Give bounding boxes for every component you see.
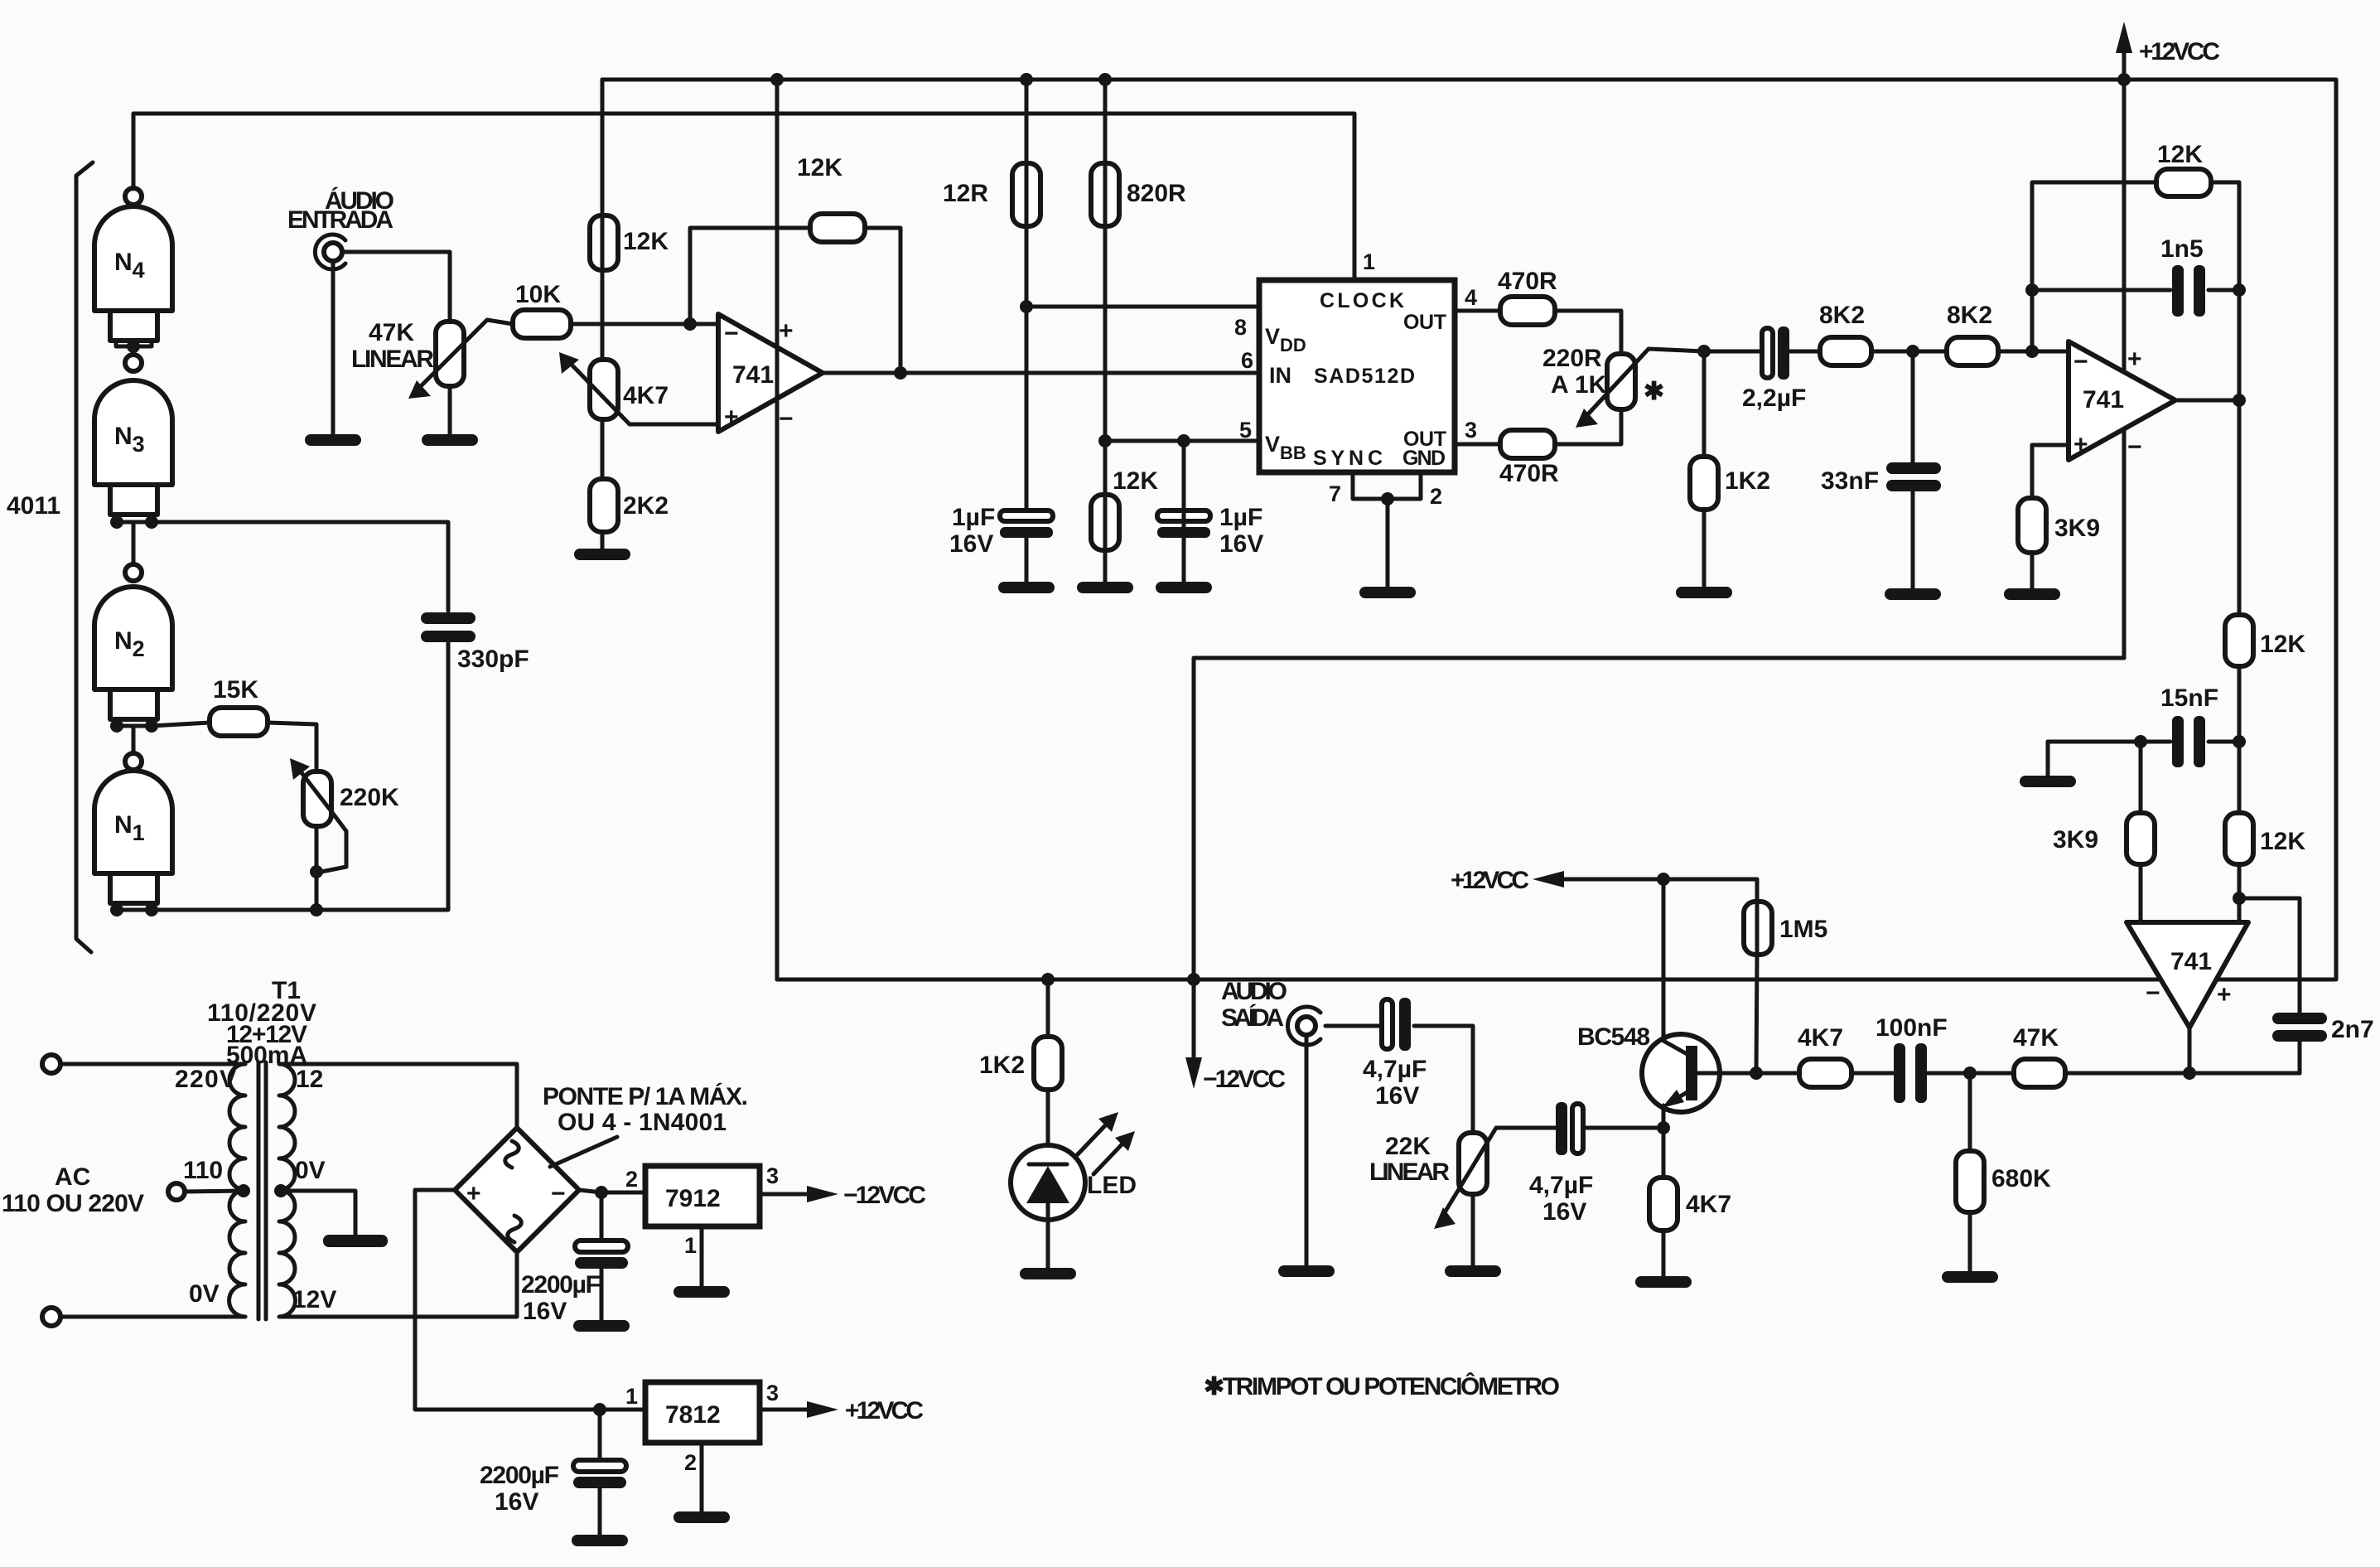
- resistor 2K2: [590, 479, 669, 532]
- potentiometer 22K LINEAR: [1369, 1128, 1496, 1229]
- svg-text:3: 3: [766, 1381, 779, 1405]
- wire node to 2.2uF: [1704, 350, 1760, 354]
- wire 12R chain from rail to 1uF: [1025, 80, 1029, 512]
- svg-text:470R: 470R: [1499, 460, 1559, 487]
- wire -12V horizontal rail y1182: [777, 978, 2334, 982]
- svg-text:12R: 12R: [943, 180, 988, 207]
- connector audio output jack: [1287, 1007, 1320, 1045]
- ground under 2200uF no2: [572, 1535, 628, 1546]
- svg-text:4,7µF: 4,7µF: [1363, 1056, 1427, 1083]
- svg-text:8K2: 8K2: [1819, 302, 1865, 329]
- svg-text:2n7: 2n7: [2331, 1016, 2374, 1043]
- svg-text:3: 3: [766, 1163, 779, 1188]
- terminal 110 tap: [168, 1183, 185, 1200]
- wire 470R top to pot top: [1555, 311, 1621, 354]
- ground under 47K: [422, 434, 478, 446]
- svg-text:7: 7: [1329, 481, 1341, 506]
- svg-text:2200µF: 2200µF: [480, 1462, 559, 1489]
- svg-text:4K7: 4K7: [623, 382, 669, 409]
- regulator 7812: [625, 1381, 779, 1475]
- wire 1uF no2 from VBB to ground: [1182, 441, 1186, 582]
- svg-text:2: 2: [625, 1167, 638, 1192]
- resistor 8K2 no2: [1947, 302, 1998, 365]
- wire bridge pointer: [550, 1137, 617, 1167]
- ground secondary 0V: [323, 1235, 388, 1247]
- junction 220K bottom: [310, 865, 323, 878]
- wire 8K2 no1 to 33nF node: [1871, 350, 1947, 354]
- junction 7912 input: [595, 1186, 608, 1199]
- wire 12K VBB to ground: [1103, 441, 1108, 582]
- resistor 680K: [1956, 1151, 2051, 1212]
- wire 15nF row to ground stub: [2048, 740, 2170, 744]
- svg-text:✱TRIMPOT OU POTENCIÔMETRO: ✱TRIMPOT OU POTENCIÔMETRO: [1204, 1372, 1560, 1400]
- wire feedback loop 741 no1: [690, 228, 810, 324]
- svg-text:A 1K: A 1K: [1551, 371, 1607, 399]
- resistor 10K: [513, 281, 571, 338]
- wire 7812 output arrow: [760, 1397, 924, 1424]
- wire 4.7uF no2 to emitter: [1583, 1126, 1663, 1130]
- wire collector vertical: [1662, 879, 1666, 1041]
- wire emitter vertical: [1662, 1105, 1666, 1178]
- gate N2: [94, 564, 172, 719]
- junction 1n5 left: [2025, 283, 2039, 297]
- svg-text:16V: 16V: [523, 1298, 567, 1325]
- wire VBB line pin5: [1105, 439, 1259, 443]
- svg-text:10K: 10K: [515, 281, 561, 308]
- svg-text:16V: 16V: [1375, 1082, 1419, 1110]
- wire jack to 47K pot top: [342, 252, 450, 322]
- resistor 12R: [943, 163, 1040, 226]
- wire 741 no1 output to SAD512D IN: [823, 371, 1259, 375]
- wire N2 output link to 15K and N1: [116, 719, 152, 726]
- wire pin4 to 470R top: [1455, 309, 1500, 313]
- wire LED chain: [1046, 979, 1050, 1037]
- svg-text:LED: LED: [1087, 1172, 1137, 1199]
- regulator 7912: [625, 1163, 779, 1258]
- svg-text:1K2: 1K2: [1725, 467, 1770, 495]
- svg-text:330pF: 330pF: [457, 646, 529, 673]
- wire 33nF to ground: [1911, 491, 1915, 588]
- svg-text:220V: 220V: [175, 1066, 236, 1093]
- op-amp 741 no3: [2127, 922, 2248, 1028]
- svg-text:8K2: 8K2: [1947, 302, 1992, 329]
- wire 7912 output arrow: [760, 1182, 926, 1209]
- ground under 1uF no2: [1156, 582, 1212, 593]
- svg-text:SAD512D: SAD512D: [1314, 365, 1415, 388]
- ground 15nF stub: [2020, 776, 2076, 787]
- wire N3 output link and feed to 330pF: [116, 515, 152, 522]
- svg-text:15K: 15K: [213, 676, 258, 704]
- resistor 12K feedback no1: [797, 154, 865, 242]
- wire N4 output links: [116, 341, 152, 346]
- ground under 2K2: [574, 549, 630, 560]
- wire 47K to output node: [2065, 1071, 2189, 1076]
- wire feedback right vertical: [2211, 182, 2239, 400]
- op-amp 741 no2: [2069, 341, 2175, 461]
- junction N2 link right: [145, 719, 158, 733]
- junction N3 link right: [145, 515, 158, 529]
- resistor 1K2 LED: [979, 1037, 1062, 1090]
- wire 22K bottom to ground: [1471, 1194, 1475, 1265]
- wire 1n5 row: [2032, 288, 2170, 293]
- junction N4-N3 link: [127, 340, 140, 353]
- wire 741 no2 supply vertical x2564: [2122, 80, 2127, 658]
- gate N4: [94, 188, 172, 341]
- wire bridge minus to 7912 input: [579, 1190, 645, 1192]
- ground under 22K: [1445, 1265, 1501, 1277]
- junction 33nF node: [1906, 345, 1919, 358]
- junction 0V tap: [274, 1184, 287, 1197]
- svg-text:4: 4: [1465, 285, 1477, 310]
- resistor 4K7 emitter: [1649, 1178, 1731, 1231]
- svg-text:−: −: [724, 320, 739, 347]
- svg-text:OU 4 - 1N4001: OU 4 - 1N4001: [558, 1109, 727, 1136]
- junction VBB 820R-12K: [1098, 434, 1112, 447]
- wire non-inverting input to 3K9: [2032, 445, 2069, 498]
- junction 12R to VDD: [1020, 300, 1033, 313]
- svg-text:LINEAR: LINEAR: [1369, 1158, 1450, 1186]
- resistor 3K9 no1: [2018, 498, 2100, 553]
- ground under 33nF: [1885, 588, 1941, 600]
- potentiometer 47K LINEAR: [351, 319, 513, 399]
- ground under 1uF no1: [998, 582, 1055, 593]
- svg-text:1µF: 1µF: [952, 504, 995, 531]
- wire 741 no2 output: [2175, 399, 2239, 403]
- junction 15nF left: [2134, 735, 2147, 748]
- junction 7812 input: [593, 1403, 606, 1416]
- svg-text:+: +: [2127, 346, 2142, 373]
- IC bracket 4011: [76, 162, 93, 952]
- ground under 7812: [673, 1511, 730, 1523]
- svg-text:1n5: 1n5: [2160, 235, 2204, 263]
- wire secondary 0V tap to ground: [281, 1191, 355, 1235]
- svg-text:IN: IN: [1269, 363, 1291, 388]
- wire 741 no3 output stub: [2188, 1028, 2192, 1073]
- junction rail x938: [770, 73, 784, 86]
- resistor 12K bias upper: [590, 215, 669, 270]
- wire 33nF node down: [1911, 351, 1915, 462]
- wire 110 tap: [185, 1191, 244, 1192]
- wire 10K to inverting input of 741 no1: [571, 322, 718, 326]
- svg-text:1: 1: [1363, 249, 1375, 274]
- wire 1M5 from +12 line to base node: [1756, 879, 1757, 1073]
- svg-text:BC548: BC548: [1577, 1023, 1650, 1051]
- junction 15nF right: [2233, 735, 2246, 748]
- gate N1: [94, 753, 172, 903]
- wire 820R chain from rail to VBB: [1103, 80, 1108, 441]
- junction rail x2564: [2117, 73, 2131, 86]
- wire AC top to primary: [60, 1062, 245, 1066]
- ground under 4K7 emitter: [1635, 1276, 1692, 1288]
- svg-text:741: 741: [732, 361, 774, 389]
- capacitor 33nF: [1821, 462, 1941, 495]
- junction emitter node: [1657, 1121, 1670, 1134]
- junction 741 no2 output: [2233, 394, 2246, 407]
- svg-text:1M5: 1M5: [1779, 916, 1827, 943]
- wire bias chain 12K to 4K7: [601, 80, 605, 360]
- junction N2 link left: [110, 719, 123, 733]
- wire jack ground lead: [331, 261, 336, 434]
- resistor 820R: [1091, 163, 1186, 226]
- junction -12V rail LED tap: [1041, 973, 1055, 986]
- svg-text:3K9: 3K9: [2053, 826, 2098, 854]
- svg-text:2,2µF: 2,2µF: [1742, 384, 1806, 412]
- svg-text:−: −: [2127, 433, 2142, 461]
- svg-text:+12VCC: +12VCC: [845, 1397, 924, 1424]
- svg-text:16V: 16V: [949, 530, 993, 558]
- svg-text:PONTE P/ 1A MÁX.: PONTE P/ 1A MÁX.: [543, 1082, 748, 1110]
- wire 12K divider chain: [2238, 400, 2242, 922]
- trimpot 220R A 1K: [1542, 345, 1704, 428]
- wire output row right segment: [2189, 1071, 2300, 1076]
- ground under SAD512D: [1359, 587, 1416, 598]
- svg-text:AC: AC: [55, 1163, 90, 1191]
- ground under 12K VBB: [1077, 582, 1133, 593]
- junction 2n7 top tap: [2233, 892, 2246, 905]
- svg-text:820R: 820R: [1127, 180, 1186, 207]
- transformer T1 secondary winding: [279, 1064, 296, 1317]
- svg-text:7912: 7912: [665, 1185, 721, 1212]
- svg-text:2: 2: [1430, 484, 1442, 509]
- wire bridge plus to 7812 input: [415, 1190, 645, 1410]
- svg-text:1: 1: [684, 1233, 697, 1258]
- svg-text:4K7: 4K7: [1686, 1191, 1731, 1218]
- svg-text:OUT: OUT: [1403, 311, 1446, 334]
- junction rail x1239: [1020, 73, 1033, 86]
- svg-text:+: +: [2073, 431, 2088, 458]
- svg-text:+: +: [466, 1180, 481, 1207]
- capacitor 2n7: [2272, 1013, 2374, 1043]
- svg-text:4,7µF: 4,7µF: [1529, 1172, 1593, 1199]
- svg-text:16V: 16V: [495, 1488, 538, 1516]
- wire 1K2 to LED: [1046, 1090, 1050, 1164]
- junction feedback node 741 no2: [2025, 345, 2039, 358]
- capacitor 1uF 16V no2 electrolytic: [1157, 504, 1263, 558]
- resistor 1M5: [1744, 902, 1827, 955]
- svg-text:−: −: [551, 1180, 566, 1207]
- svg-text:+12VCC: +12VCC: [2139, 38, 2220, 65]
- junction VBB 1uF: [1177, 434, 1190, 447]
- capacitor 100nF: [1876, 1014, 1948, 1103]
- svg-text:12K: 12K: [797, 154, 842, 181]
- capacitor 1n5: [2160, 235, 2205, 317]
- terminal AC top: [42, 1055, 60, 1073]
- wire 3K9 no2 chain: [2139, 742, 2143, 922]
- junction delay output node: [1697, 345, 1711, 358]
- svg-text:1µF: 1µF: [1219, 504, 1262, 531]
- wire LED to ground: [1046, 1220, 1050, 1268]
- ground under 2200uF no1: [573, 1320, 630, 1332]
- svg-text:3: 3: [1465, 418, 1477, 443]
- svg-text:0V: 0V: [295, 1157, 326, 1184]
- wire 470R bottom to pot bottom: [1555, 409, 1621, 444]
- wire 4K7 emitter to ground: [1662, 1231, 1666, 1276]
- svg-text:ÁUDIO: ÁUDIO: [1221, 977, 1287, 1005]
- ground under 1K2: [1676, 587, 1732, 598]
- wire 680K to ground: [1968, 1212, 1972, 1271]
- connector audio input jack: [315, 235, 345, 269]
- wire 4K7 to 2K2: [601, 419, 605, 479]
- ground under 3K9 no1: [2004, 588, 2060, 600]
- svg-text:−12VCC: −12VCC: [1203, 1066, 1286, 1093]
- junction output 741 no1: [894, 366, 907, 380]
- wire 1K2 to ground: [1702, 510, 1707, 587]
- wire +12VCC collector feed line: [1556, 878, 1757, 882]
- svg-text:LINEAR: LINEAR: [351, 346, 434, 373]
- junction N1 link right: [145, 903, 158, 917]
- svg-text:220R: 220R: [1542, 345, 1602, 372]
- svg-text:+: +: [724, 404, 739, 431]
- capacitor 1uF 16V no1 electrolytic: [949, 504, 1053, 558]
- svg-text:470R: 470R: [1498, 268, 1557, 295]
- junction 741 no3 output: [2183, 1066, 2196, 1080]
- wire -12V feed from rail to 741 no2 bottom: [1194, 658, 2124, 979]
- wire 220K bottom to N1 link: [315, 826, 319, 910]
- wire jack ground: [1305, 1035, 1309, 1265]
- resistor 4K7 base: [1798, 1024, 1851, 1087]
- junction N3 link left: [110, 515, 123, 529]
- capacitor 2.2uF: [1742, 326, 1806, 412]
- svg-text:SAÍDA: SAÍDA: [1221, 1004, 1284, 1032]
- resistor 8K2 no1: [1819, 302, 1871, 365]
- svg-text:33nF: 33nF: [1821, 467, 1879, 495]
- ground under output jack: [1278, 1265, 1335, 1277]
- svg-text:−: −: [2146, 979, 2160, 1007]
- svg-text:CLOCK: CLOCK: [1320, 289, 1404, 312]
- junction N1 link left: [110, 903, 123, 917]
- -12VCC arrow down: [1185, 979, 1286, 1093]
- resistor 15K: [210, 676, 268, 736]
- transformer T1 primary winding: [229, 1064, 246, 1317]
- resistor 12K feedback no2: [2156, 141, 2211, 196]
- wire 1uF no1 to ground: [1025, 538, 1029, 582]
- svg-text:22K: 22K: [1385, 1133, 1431, 1160]
- svg-text:110 OU 220V: 110 OU 220V: [2, 1190, 144, 1217]
- capacitor 4.7uF no1: [1363, 998, 1427, 1110]
- wire 2n7 branch: [2239, 898, 2300, 1016]
- wire 741 no1 supply vertical x938: [775, 80, 780, 979]
- svg-text:110: 110: [183, 1157, 223, 1184]
- resistor 470R top: [1498, 268, 1557, 325]
- svg-text:+12VCC: +12VCC: [1451, 867, 1529, 894]
- junction pins 7-2: [1381, 492, 1394, 505]
- wire 8K2 no2 to inverting input 741 no2: [1998, 350, 2069, 354]
- svg-text:−: −: [779, 405, 794, 433]
- wire 7812 ground pin2: [700, 1443, 704, 1511]
- transistor Q1 BC548: [1577, 1023, 1720, 1112]
- IC SAD512D box: [1259, 280, 1455, 472]
- svg-text:✱: ✱: [1644, 378, 1664, 405]
- svg-text:+: +: [779, 317, 794, 345]
- resistor 47K: [2013, 1024, 2065, 1087]
- svg-text:741: 741: [2170, 948, 2212, 975]
- wire node down to 1K2: [1702, 351, 1707, 457]
- svg-text:2: 2: [684, 1450, 697, 1475]
- wire base node: [1720, 1071, 1799, 1076]
- svg-text:16V: 16V: [1542, 1198, 1586, 1226]
- svg-text:220K: 220K: [340, 784, 399, 811]
- resistor 470R bottom: [1499, 430, 1559, 487]
- op-amp 741 no1: [718, 314, 823, 433]
- trimpot 220K: [290, 758, 399, 872]
- ground under jack: [305, 434, 361, 446]
- capacitor 2200uF no1: [521, 1192, 628, 1325]
- wire 47K bottom to ground: [448, 386, 452, 434]
- wire SYNC GND pins 7 and 2 to ground: [1353, 472, 1421, 499]
- wire feedback left vertical: [2032, 182, 2156, 351]
- svg-text:47K: 47K: [369, 319, 414, 346]
- svg-text:12K: 12K: [2157, 141, 2203, 168]
- wire clock line from N4 output to SAD512D pin1: [133, 114, 1354, 280]
- svg-text:−: −: [2073, 348, 2088, 375]
- svg-text:1: 1: [625, 1384, 638, 1409]
- svg-text:2200µF: 2200µF: [521, 1271, 601, 1299]
- wire 2K2 to ground: [601, 532, 605, 549]
- +12VCC supply arrow top right: [2116, 22, 2220, 80]
- +12VCC arrow label left: [1451, 867, 1564, 894]
- svg-text:12V: 12V: [292, 1286, 336, 1313]
- wire 4.7uF no2 to 22K wiper: [1496, 1126, 1556, 1130]
- svg-text:16V: 16V: [1219, 530, 1263, 558]
- wire 680K branch: [1968, 1073, 1972, 1151]
- svg-text:12K: 12K: [623, 228, 669, 255]
- svg-text:6: 6: [1241, 348, 1253, 373]
- svg-text:12K: 12K: [1113, 467, 1158, 495]
- wire 680K node: [1924, 1071, 2014, 1076]
- wire pin3 to 470R bottom: [1455, 443, 1500, 447]
- bridge rectifier: [455, 1128, 579, 1252]
- svg-text:3K9: 3K9: [2054, 515, 2100, 542]
- resistor 12K divider lower: [2225, 813, 2305, 864]
- junction 110 tap on winding: [237, 1184, 250, 1197]
- svg-text:8: 8: [1234, 315, 1247, 340]
- svg-text:0V: 0V: [189, 1280, 220, 1308]
- ground under 680K: [1942, 1271, 1998, 1283]
- capacitor 330pF: [421, 612, 529, 673]
- svg-text:15nF: 15nF: [2160, 684, 2218, 712]
- resistor 3K9 no2: [2053, 813, 2155, 864]
- junction collector feed: [1657, 873, 1670, 886]
- wire secondary top to bridge: [281, 1064, 517, 1128]
- junction base node: [1750, 1066, 1763, 1080]
- junction -12V arrow tap: [1187, 973, 1200, 986]
- svg-text:12K: 12K: [2260, 631, 2305, 658]
- svg-text:4011: 4011: [7, 492, 60, 520]
- ground under 7912: [673, 1286, 730, 1298]
- wire 15K to 220K pot: [268, 723, 316, 771]
- svg-text:741: 741: [2083, 386, 2124, 414]
- svg-text:+: +: [2217, 981, 2232, 1008]
- junction feedback at inverting input: [683, 317, 697, 331]
- trimpot 4K7: [559, 352, 718, 424]
- wire jack to 4.7uF no1: [1325, 1024, 1382, 1028]
- capacitor 15nF: [2160, 684, 2218, 767]
- resistor 12K divider upper: [2225, 615, 2305, 666]
- svg-text:12: 12: [296, 1066, 323, 1093]
- gate N3: [94, 355, 172, 515]
- svg-text:100nF: 100nF: [1876, 1014, 1948, 1042]
- transformer T1 core: [257, 1062, 261, 1319]
- svg-text:2K2: 2K2: [623, 492, 669, 520]
- svg-text:680K: 680K: [1991, 1165, 2051, 1192]
- wire VDD line pin8: [1026, 305, 1259, 309]
- svg-text:−12VCC: −12VCC: [843, 1182, 926, 1209]
- svg-text:7812: 7812: [665, 1401, 721, 1429]
- svg-text:12K: 12K: [2260, 828, 2305, 855]
- capacitor 2200uF no2: [480, 1410, 626, 1535]
- svg-text:OUT: OUT: [1403, 428, 1446, 451]
- junction 1n5 right: [2233, 283, 2246, 297]
